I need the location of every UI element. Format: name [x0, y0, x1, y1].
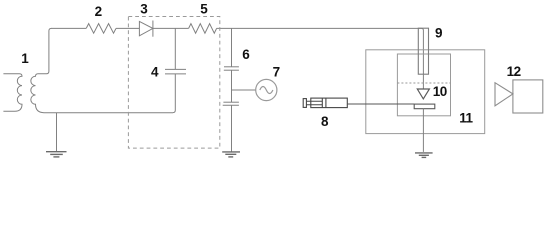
svg-text:1: 1: [21, 51, 29, 66]
svg-text:7: 7: [273, 65, 281, 80]
svg-text:4: 4: [151, 65, 159, 80]
svg-text:2: 2: [95, 4, 103, 19]
svg-text:11: 11: [459, 111, 473, 126]
svg-text:5: 5: [200, 2, 208, 17]
svg-text:6: 6: [242, 47, 250, 62]
svg-text:9: 9: [435, 25, 443, 40]
svg-text:8: 8: [321, 114, 329, 129]
svg-text:10: 10: [433, 84, 447, 99]
svg-text:12: 12: [507, 64, 521, 79]
svg-text:3: 3: [140, 2, 148, 17]
